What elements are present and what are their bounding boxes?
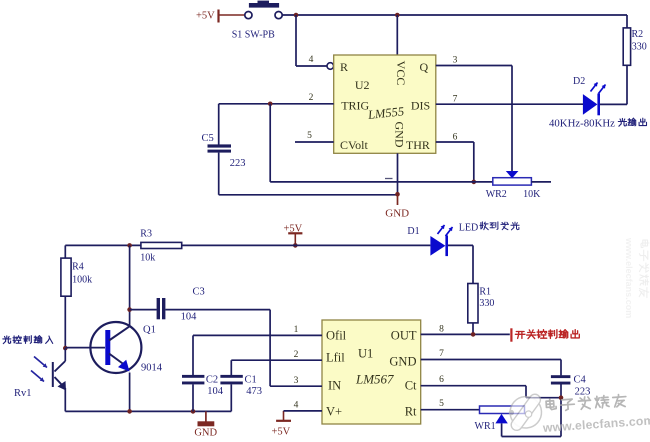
svg-text:7: 7 [439, 349, 444, 359]
pin 1 dash [385, 178, 393, 180]
wire Ct pin6 [421, 386, 561, 398]
node GND junction [395, 192, 400, 197]
node junction VCC [395, 13, 400, 18]
op-amp U1 LM567 body [322, 320, 421, 424]
svg-text:473: 473 [246, 386, 262, 397]
svg-text:2: 2 [294, 350, 299, 360]
label switch control output [510, 328, 579, 341]
svg-text:V+: V+ [326, 405, 342, 419]
svg-text:TRIG: TRIG [341, 98, 369, 112]
svg-text:U1: U1 [358, 347, 373, 361]
node THR/rail junction [472, 180, 477, 185]
svg-text:IN: IN [328, 379, 341, 393]
svg-text:DIS: DIS [411, 98, 430, 112]
node junction S1/R input [294, 13, 299, 18]
svg-text:104: 104 [207, 386, 224, 397]
svg-text:5: 5 [307, 131, 312, 141]
wire bottom rail right [502, 436, 561, 438]
svg-text:Q: Q [420, 60, 429, 74]
node base junction [63, 346, 68, 351]
wire collector [129, 245, 131, 326]
svg-text:C2: C2 [206, 375, 218, 386]
wire pin3 IN [270, 385, 322, 387]
svg-text:WR2: WR2 [486, 189, 507, 200]
ground GND (top circuit) [385, 195, 409, 220]
wire bottom rail left [65, 410, 231, 412]
svg-text:R1: R1 [479, 287, 491, 298]
svg-text:7: 7 [453, 95, 458, 105]
svg-text:3: 3 [453, 56, 458, 66]
node R3/collector junction [127, 243, 132, 248]
svg-text:WR1: WR1 [475, 421, 496, 432]
svg-text:223: 223 [575, 386, 591, 397]
capacitor C5 [202, 104, 246, 195]
svg-text:R4: R4 [72, 262, 84, 273]
node C2 junction [191, 409, 196, 414]
svg-text:CVolt: CVolt [340, 138, 368, 152]
svg-text:4: 4 [294, 401, 299, 411]
node C4/Ct junction [559, 395, 564, 400]
wire GND pin 1 of U2 [397, 153, 399, 195]
wire OUT pin8 [421, 333, 510, 335]
svg-text:8: 8 [439, 325, 444, 335]
svg-text:Ct: Ct [405, 379, 417, 393]
wire THR pin6 [436, 142, 474, 182]
svg-text:S1 SW-PB: S1 SW-PB [232, 30, 275, 41]
svg-text:R3: R3 [140, 228, 152, 239]
svg-text:6: 6 [453, 133, 458, 143]
wire Rt pin5 [421, 409, 480, 411]
svg-text:VCC: VCC [394, 61, 408, 86]
switch S1 SW-PB [232, 1, 283, 41]
svg-text:D2: D2 [573, 76, 585, 87]
svg-text:40KHz-80KHz: 40KHz-80KHz [549, 118, 615, 130]
svg-text:GND: GND [385, 208, 409, 220]
resistor R1 330 [468, 245, 495, 334]
capacitor C2 104 [182, 335, 224, 411]
svg-text:1: 1 [294, 325, 299, 335]
resistor R4 100k [61, 245, 92, 348]
wire C3 to IN pin3 [269, 310, 271, 387]
LED D1 [407, 225, 473, 256]
svg-text:THR: THR [406, 138, 430, 152]
svg-text:R2: R2 [632, 29, 644, 40]
svg-text:LED: LED [459, 223, 478, 234]
op-amp U2 LM555 body [334, 55, 436, 153]
svg-text:+5V: +5V [196, 11, 215, 22]
svg-text:LM567: LM567 [355, 372, 394, 387]
wire GND rail (C5 to GND pin) [219, 194, 398, 196]
power +5V (pin V+) [272, 411, 292, 438]
svg-text:Rv1: Rv1 [14, 388, 32, 399]
svg-text:100k: 100k [72, 275, 92, 286]
watermark logo circle [507, 391, 545, 433]
svg-text:3: 3 [294, 376, 299, 386]
svg-text:R: R [340, 60, 348, 74]
svg-text:10k: 10k [140, 252, 155, 263]
resistor R2 330 [623, 15, 647, 104]
svg-text:9014: 9014 [141, 363, 163, 374]
node +5V rail junction [293, 243, 298, 248]
wire GND pin7 to C4 [421, 360, 561, 376]
svg-text:6: 6 [439, 375, 444, 385]
capacitor C4 223 [551, 375, 590, 437]
svg-text:104: 104 [181, 312, 198, 323]
svg-text:330: 330 [479, 298, 494, 309]
label light control input [3, 336, 53, 344]
wire pin4 V+ [284, 410, 323, 412]
wire top rail of LM567 circuit [65, 244, 430, 246]
svg-text:www.elecfans.com: www.elecfans.com [624, 237, 634, 318]
capacitor C3 104 [130, 287, 271, 323]
svg-text:+5V: +5V [272, 427, 291, 438]
capacitor C1 473 [220, 360, 262, 411]
potentiometer WR2 10K [486, 171, 551, 200]
node R1/OUT junction [471, 332, 476, 337]
svg-text:C3: C3 [193, 287, 205, 298]
svg-text:5: 5 [439, 399, 444, 409]
potentiometer WR1 [475, 406, 525, 437]
svg-text:Lfil: Lfil [326, 351, 345, 365]
svg-text:D1: D1 [407, 226, 419, 237]
pin 4 inversion circle [327, 63, 334, 70]
wire emitter [129, 373, 131, 412]
svg-text:C1: C1 [245, 375, 257, 386]
svg-text:Q1: Q1 [143, 325, 156, 336]
svg-text:2: 2 [309, 93, 314, 103]
wire TRIG to bottom rail [270, 104, 493, 182]
photo transistor Rv1 [14, 348, 66, 411]
wire to pin 4 [296, 15, 327, 66]
svg-text:OUT: OUT [391, 329, 417, 343]
watermark right edge [624, 237, 649, 318]
wire pin2 to C1 [231, 359, 322, 361]
LED D2 [573, 76, 627, 115]
svg-text:C4: C4 [574, 375, 587, 386]
wire Q pin3 to WR2 wiper [436, 66, 512, 172]
wire TRIG pin2 [219, 103, 334, 105]
wire base of Q1 [65, 347, 105, 349]
watermark text elecfans [540, 392, 650, 435]
svg-text:GND: GND [393, 122, 407, 148]
wire CVolt pin5 stub [295, 141, 334, 143]
svg-text:223: 223 [230, 158, 246, 169]
node emitter junction [127, 409, 132, 414]
ground GND (bottom) [194, 411, 217, 438]
svg-text:U2: U2 [355, 78, 370, 92]
svg-text:Ofil: Ofil [326, 329, 347, 343]
power +5V (middle) [284, 224, 303, 246]
power +5V (top left) [196, 10, 245, 23]
wire top rail +5V [282, 14, 627, 16]
svg-text:10K: 10K [523, 189, 541, 200]
resistor R3 10k [140, 228, 181, 263]
wire DIS pin7 to D2 [436, 103, 583, 105]
svg-text:Rt: Rt [405, 405, 417, 419]
svg-text:4: 4 [309, 55, 314, 65]
transistor Q1 9014 [90, 322, 162, 374]
node TRIG junction [268, 102, 273, 107]
label LED receive light [459, 222, 519, 234]
svg-text:GND: GND [389, 355, 416, 369]
svg-text:GND: GND [194, 428, 217, 439]
wire pin1 to C2 [193, 334, 322, 336]
label 40KHz-80KHz output [549, 118, 647, 130]
wire VCC pin [396, 15, 398, 55]
svg-text:330: 330 [632, 42, 647, 53]
svg-text:C5: C5 [202, 133, 214, 144]
node collector/C3 junction [127, 307, 132, 312]
